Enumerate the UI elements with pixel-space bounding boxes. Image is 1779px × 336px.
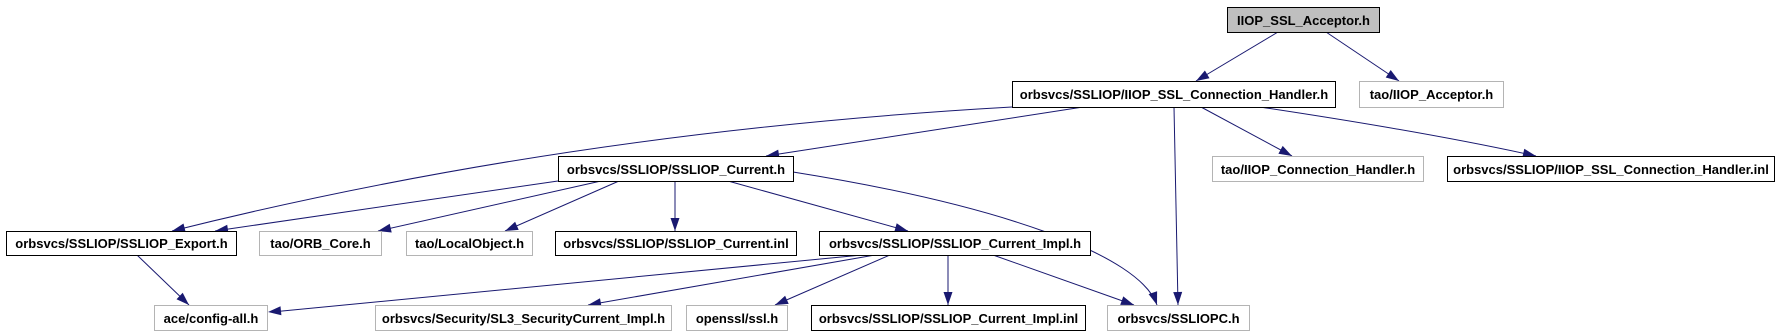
arrowhead: IIOP_SSL_Connection_Handler.h to IIOP_SSL_Connection_Handler.inl — [1522, 149, 1536, 158]
node orbsvcs/SSLIOP/SSLIOP_Export.h — [6, 231, 237, 256]
node orbsvcs/SSLIOPC.h — [1107, 305, 1250, 331]
edge: IIOP_SSL_Connection_Handler.h to SSLIOPC.h — [1174, 107, 1178, 305]
node tao/ORB_Core.h — [259, 231, 382, 256]
edge: SSLIOP_Export.h to ace/config-all.h — [137, 255, 189, 305]
arrowhead: SSLIOP_Current.h to SSLIOP_Export.h — [215, 225, 229, 234]
arrowhead: IIOP_SSL_Connection_Handler.h to SSLIOP_Export.h — [172, 224, 186, 233]
node tao/IIOP_Connection_Handler.h — [1212, 156, 1424, 182]
node orbsvcs/SSLIOP/SSLIOP_Current_Impl.inl — [811, 305, 1086, 331]
edge: SSLIOP_Current.h to SSLIOPC.h — [793, 172, 1157, 305]
arrowhead: SSLIOP_Current_Impl.h to SL3_SecurityCurrent_Impl.h — [588, 298, 602, 307]
edge: SSLIOP_Current.h to tao/ORB_Core.h — [378, 181, 601, 231]
node orbsvcs/SSLIOP/SSLIOP_Current.h — [558, 156, 794, 182]
arrowhead: SSLIOP_Export.h to ace/config-all.h — [177, 293, 190, 305]
node orbsvcs/SSLIOP/SSLIOP_Current.inl — [555, 231, 797, 256]
arrowhead: IIOP_SSL_Connection_Handler.h to tao/IIOP_Connection_Handler.h — [1278, 146, 1292, 156]
node tao/LocalObject.h — [406, 231, 533, 256]
edge: SSLIOP_Current_Impl.h to SSLIOPC.h — [993, 255, 1134, 305]
node orbsvcs/Security/SL3_SecurityCurrent_Impl.h — [375, 305, 672, 331]
arrowhead: IIOP_SSL_Acceptor.h to tao/IIOP_Acceptor.h — [1386, 70, 1399, 81]
edge: SSLIOP_Current.h to SSLIOP_Current_Impl.h — [728, 181, 908, 231]
node ace/config-all.h — [154, 305, 268, 331]
arrowhead: SSLIOP_Current.h to SSLIOP_Current_Impl.h — [894, 223, 908, 232]
edge: IIOP_SSL_Acceptor.h to tao/IIOP_Acceptor.h — [1326, 32, 1399, 81]
arrowhead: SSLIOP_Current_Impl.h to SSLIOP_Current_Impl.inl — [944, 292, 953, 305]
edge: SSLIOP_Current.h to SSLIOP_Current.inl — [674, 181, 676, 231]
edge: SSLIOP_Current.h to SSLIOP_Export.h — [215, 181, 558, 231]
edge: IIOP_SSL_Acceptor.h to IIOP_SSL_Connection_Handler.h — [1196, 32, 1278, 81]
arrowhead: SSLIOP_Current.h to SSLIOPC.h — [1149, 291, 1158, 305]
arrowhead: IIOP_SSL_Connection_Handler.h to SSLIOP_Current.h — [766, 150, 780, 159]
node IIOP_SSL_Acceptor.h — [1227, 7, 1380, 33]
edge: SSLIOP_Current_Impl.h to SSLIOP_Current_Impl.inl — [947, 255, 949, 305]
node orbsvcs/SSLIOP/IIOP_SSL_Connection_Handler.h — [1012, 81, 1336, 108]
node openssl/ssl.h — [686, 305, 788, 331]
edge: IIOP_SSL_Connection_Handler.h to SSLIOP_Export.h — [172, 107, 1012, 231]
arrowhead: SSLIOP_Current.h to tao/ORB_Core.h — [378, 224, 392, 233]
arrowhead: IIOP_SSL_Connection_Handler.h to SSLIOPC.h — [1173, 292, 1182, 305]
edge: IIOP_SSL_Connection_Handler.h to SSLIOP_Current.h — [766, 107, 1083, 156]
node tao/IIOP_Acceptor.h — [1359, 81, 1504, 108]
arrowhead: SSLIOP_Current_Impl.h to SSLIOPC.h — [1120, 296, 1134, 305]
node orbsvcs/SSLIOP/IIOP_SSL_Connection_Handler.inl — [1447, 156, 1775, 182]
arrowhead: SSLIOP_Current_Impl.h to openssl/ssl.h — [775, 296, 789, 305]
edge: SSLIOP_Current_Impl.h to openssl/ssl.h — [775, 255, 890, 305]
edge: SSLIOP_Current.h to tao/LocalObject.h — [505, 181, 619, 231]
arrowhead: IIOP_SSL_Acceptor.h to IIOP_SSL_Connection_Handler.h — [1196, 71, 1210, 82]
edge: IIOP_SSL_Connection_Handler.h to tao/IIOP_Connection_Handler.h — [1201, 107, 1292, 156]
edge: SSLIOP_Current_Impl.h to SL3_SecurityCurrent_Impl.h — [588, 255, 875, 305]
edge: IIOP_SSL_Connection_Handler.h to IIOP_SSL_Connection_Handler.inl — [1260, 107, 1536, 156]
arrowhead: SSLIOP_Current.h to tao/LocalObject.h — [505, 222, 519, 231]
arrowhead: SSLIOP_Current.h to SSLIOP_Current.inl — [671, 218, 680, 231]
edge: SSLIOP_Current_Impl.h to ace/config-all.h — [272, 255, 862, 312]
node orbsvcs/SSLIOP/SSLIOP_Current_Impl.h — [819, 231, 1091, 256]
arrowhead: SSLIOP_Current_Impl.h to ace/config-all.h — [268, 306, 281, 315]
